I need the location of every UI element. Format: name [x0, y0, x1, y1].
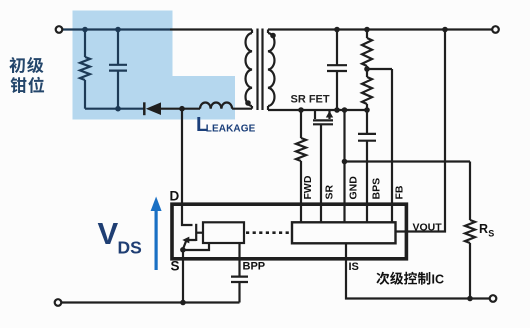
svg-text:SR FET: SR FET	[291, 94, 330, 106]
svg-text:LEAKAGE: LEAKAGE	[206, 124, 256, 135]
svg-text:D: D	[170, 189, 180, 204]
svg-text:VOUT: VOUT	[413, 222, 443, 234]
svg-text:FB: FB	[394, 185, 406, 199]
svg-text:S: S	[171, 259, 180, 274]
svg-text:R: R	[479, 222, 488, 236]
svg-text:SR: SR	[324, 184, 336, 199]
svg-text:IC: IC	[432, 273, 445, 287]
svg-text:FWD: FWD	[302, 175, 314, 199]
svg-text:S: S	[488, 229, 494, 239]
svg-text:GND: GND	[348, 176, 360, 200]
svg-text:DS: DS	[118, 238, 142, 258]
svg-text:BPS: BPS	[371, 178, 383, 200]
svg-text:V: V	[98, 216, 119, 251]
svg-text:IS: IS	[349, 261, 359, 273]
svg-text:BPP: BPP	[243, 261, 266, 273]
